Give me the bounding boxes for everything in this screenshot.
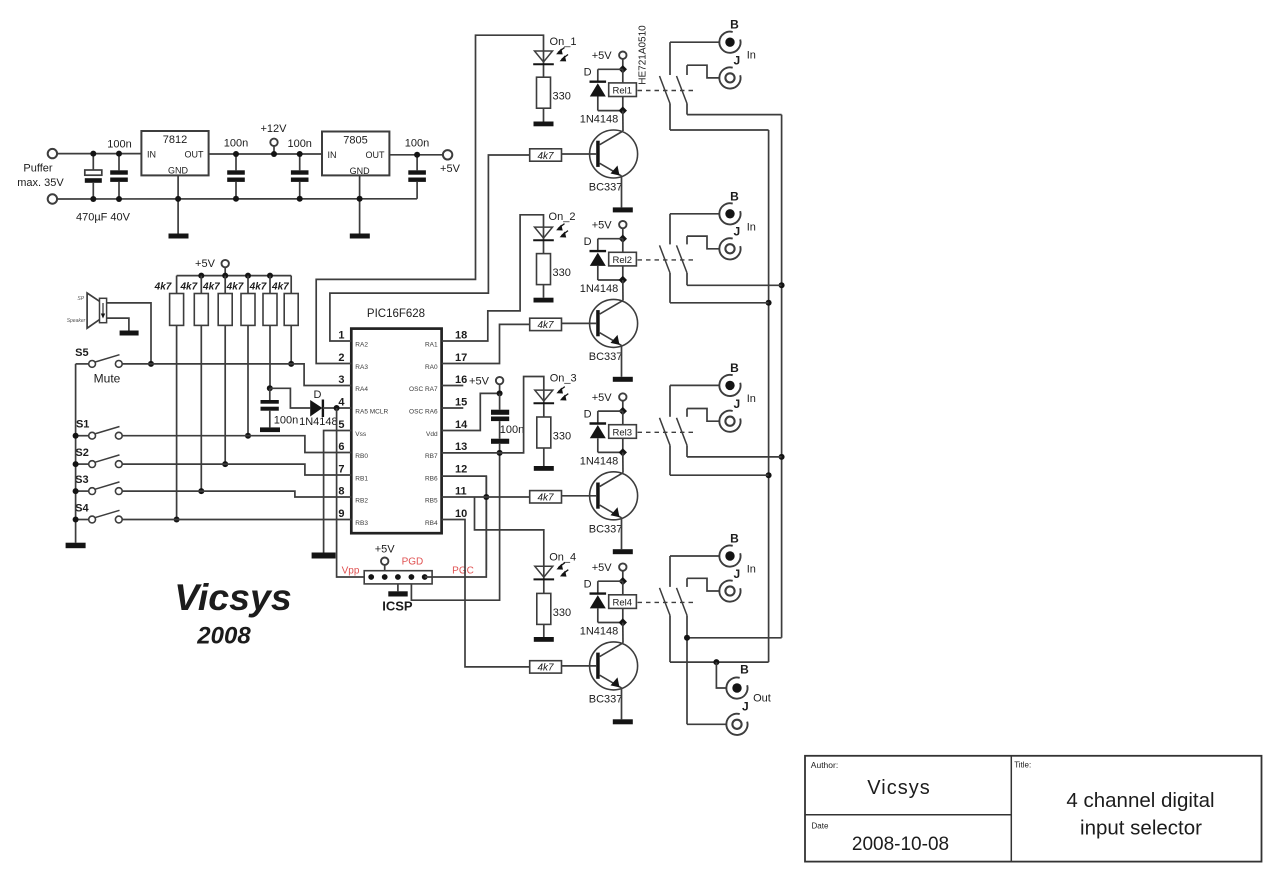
ground LED ch3 bbox=[534, 466, 554, 471]
label 4k7 R1 bbox=[154, 282, 172, 293]
svg-text:J: J bbox=[733, 225, 740, 239]
resistor 330 ch1 bbox=[537, 77, 551, 121]
svg-text:Speaker: Speaker bbox=[67, 318, 86, 324]
svg-text:RA2: RA2 bbox=[355, 342, 368, 349]
svg-text:4: 4 bbox=[338, 397, 345, 409]
wire ch4 signal to bus1 bbox=[670, 659, 769, 665]
junction relay bottom ch4 bbox=[619, 618, 627, 626]
svg-text:100n: 100n bbox=[274, 415, 298, 427]
svg-text:D: D bbox=[584, 408, 592, 420]
capacitor 470uF 40V bbox=[85, 151, 102, 202]
title block horizontal divider bbox=[805, 814, 1011, 816]
contact switch b ch4 bbox=[677, 578, 688, 724]
node +5V relay ch4 bbox=[619, 563, 626, 581]
svg-text:17: 17 bbox=[455, 352, 467, 364]
label 1N4148 ch1 bbox=[580, 114, 619, 126]
terminal Puffer + (input) bbox=[48, 149, 57, 158]
wire R1 to S4 net bbox=[174, 325, 180, 522]
svg-text:Vdd: Vdd bbox=[426, 431, 438, 438]
wire pin16 OSC stub bbox=[442, 385, 464, 387]
resistor R5 4k7 (pull-up) bbox=[263, 276, 277, 326]
resistor R3 4k7 (pull-up) bbox=[218, 276, 232, 326]
label +5V relay ch4 bbox=[592, 562, 613, 574]
wire pin8 RB2 to S3 bbox=[122, 491, 351, 497]
switch S3 bbox=[76, 482, 123, 495]
label 4k7 R2 bbox=[179, 282, 197, 293]
RCA connector B Out bbox=[726, 677, 747, 698]
svg-text:330: 330 bbox=[553, 431, 571, 443]
svg-text:J: J bbox=[733, 54, 740, 68]
bus ground vertical bbox=[779, 115, 785, 638]
node +5V Vdd bbox=[496, 377, 503, 397]
junction relay top ch4 bbox=[619, 577, 627, 585]
label J Out bbox=[742, 700, 749, 714]
svg-text:100n: 100n bbox=[500, 424, 524, 436]
label 100n (before 7805) bbox=[287, 138, 311, 150]
label 330 ch3 bbox=[553, 431, 571, 443]
wire B RCA to switch ch4 bbox=[670, 555, 719, 557]
wire relay coil ch2 bbox=[622, 239, 624, 280]
svg-text:RB5: RB5 bbox=[425, 498, 438, 505]
svg-text:4k7: 4k7 bbox=[202, 282, 220, 293]
svg-text:PIC16F628: PIC16F628 bbox=[367, 308, 425, 320]
node +5V relay ch3 bbox=[619, 393, 626, 411]
label Mute bbox=[94, 372, 121, 386]
relay Rel4 bbox=[609, 595, 637, 609]
label In ch4 bbox=[747, 564, 756, 576]
ground LED ch4 bbox=[534, 637, 554, 642]
svg-text:2008: 2008 bbox=[196, 623, 251, 650]
label D flyback ch3 bbox=[584, 408, 592, 420]
svg-text:15: 15 bbox=[455, 397, 467, 409]
wire speaker top to mute net bbox=[107, 303, 154, 367]
svg-text:D: D bbox=[314, 389, 322, 401]
dashed relay actuation ch1 bbox=[638, 90, 694, 92]
label +5V relay ch2 bbox=[592, 219, 613, 231]
wire ch3 ground to bus2 bbox=[687, 456, 782, 458]
svg-text:RB4: RB4 bbox=[425, 520, 438, 527]
wire 7805 OUT to +5V bbox=[389, 154, 443, 156]
wire pin7 RB1 to S2 bbox=[122, 464, 351, 475]
wire pin5 Vss to ground bbox=[324, 431, 352, 553]
RCA connector B ch1 bbox=[719, 32, 740, 53]
svg-text:RA3: RA3 bbox=[355, 364, 368, 371]
regulator 7812 bbox=[141, 131, 208, 176]
switch S4 bbox=[76, 510, 123, 523]
label 330 ch1 bbox=[553, 91, 571, 103]
svg-text:1: 1 bbox=[338, 330, 344, 342]
label Out bbox=[753, 693, 771, 705]
diode D 1N4148 flyback ch2 bbox=[590, 239, 623, 280]
resistor 330 ch4 bbox=[537, 593, 551, 637]
title block author Vicsys bbox=[867, 777, 930, 799]
svg-text:BC337: BC337 bbox=[589, 693, 623, 705]
svg-text:2: 2 bbox=[338, 352, 344, 364]
ICSP header bbox=[364, 571, 432, 584]
wire B RCA to switch ch1 bbox=[670, 41, 719, 43]
wire bottom rail bbox=[57, 198, 417, 200]
label S5 bbox=[75, 347, 88, 359]
svg-text:B: B bbox=[730, 189, 739, 203]
title block title line2 bbox=[1080, 817, 1202, 840]
RCA connector B ch2 bbox=[719, 203, 740, 224]
svg-text:13: 13 bbox=[455, 441, 467, 453]
junction relay bottom ch2 bbox=[619, 276, 627, 284]
label J ch3 bbox=[733, 397, 740, 411]
ground emitter ch2 bbox=[613, 377, 633, 382]
contact switch b ch1 bbox=[677, 65, 688, 114]
contact switch a ch1 bbox=[660, 42, 671, 130]
wire ch2 ground to bus2 bbox=[687, 284, 782, 286]
label 100n (after 7812) bbox=[224, 138, 248, 150]
label B ch3 bbox=[730, 361, 739, 375]
svg-text:OSC RA6: OSC RA6 bbox=[409, 409, 438, 416]
capacitor C 100n input bbox=[110, 151, 128, 202]
contact switch a ch2 bbox=[660, 214, 671, 303]
wire pin11 RB5 to R 4k7 ch3 bbox=[442, 496, 530, 498]
ground 7805 GND bbox=[350, 175, 370, 238]
label +5V output bbox=[440, 163, 461, 175]
svg-text:B: B bbox=[730, 361, 739, 375]
label S3 bbox=[75, 474, 88, 486]
resistor R4 4k7 (pull-up) bbox=[241, 276, 255, 326]
svg-text:GND: GND bbox=[350, 166, 371, 176]
wire pin3 RA4 to mute switch S5 bbox=[122, 364, 351, 386]
svg-text:Author:: Author: bbox=[811, 760, 838, 770]
svg-text:4k7: 4k7 bbox=[537, 663, 554, 674]
svg-text:RB0: RB0 bbox=[355, 453, 368, 460]
label D flyback ch1 bbox=[584, 67, 592, 79]
label On_3 bbox=[550, 373, 577, 385]
svg-text:In: In bbox=[747, 564, 756, 576]
wire relay to collector ch4 bbox=[622, 623, 624, 643]
dashed relay actuation ch4 bbox=[638, 601, 694, 603]
node +5V ICSP bbox=[381, 558, 388, 572]
svg-text:RA5 MCLR: RA5 MCLR bbox=[355, 409, 388, 416]
label +5V relay ch3 bbox=[592, 392, 613, 404]
svg-text:PGD: PGD bbox=[402, 557, 424, 568]
node +5V relay ch1 bbox=[619, 52, 626, 70]
svg-text:4k7: 4k7 bbox=[179, 282, 197, 293]
bus signal vertical bbox=[766, 130, 772, 662]
switch S1 bbox=[76, 427, 123, 440]
label PGD bbox=[402, 557, 424, 568]
label SP bbox=[77, 296, 84, 302]
svg-text:Puffer: Puffer bbox=[23, 163, 52, 175]
svg-text:Rel4: Rel4 bbox=[613, 598, 633, 609]
speaker SP bbox=[87, 293, 107, 328]
label 4k7 R6 bbox=[271, 282, 289, 293]
svg-text:In: In bbox=[747, 393, 756, 405]
ICSP pins bbox=[368, 574, 427, 580]
junction relay top ch1 bbox=[619, 65, 627, 73]
svg-text:RB2: RB2 bbox=[355, 498, 368, 505]
label D flyback ch4 bbox=[584, 578, 592, 590]
svg-text:10: 10 bbox=[455, 508, 467, 520]
svg-text:11: 11 bbox=[455, 486, 467, 498]
label BC337 ch3 bbox=[589, 523, 623, 535]
RCA connector J Out bbox=[726, 714, 747, 735]
svg-text:2008-10-08: 2008-10-08 bbox=[852, 834, 949, 855]
svg-text:B: B bbox=[730, 18, 739, 32]
label 4k7 R4 bbox=[226, 282, 244, 293]
label +5V (resistor bank) bbox=[195, 258, 216, 270]
label 1N4148 ch2 bbox=[580, 283, 619, 295]
wire R6 to mute net bbox=[288, 325, 294, 367]
svg-text:16: 16 bbox=[455, 374, 467, 386]
wire J RCA to switch ch2 bbox=[687, 236, 719, 249]
svg-text:max. 35V: max. 35V bbox=[17, 177, 64, 189]
logo 2008 bbox=[196, 623, 251, 650]
relay Rel1 bbox=[609, 83, 637, 97]
svg-text:4k7: 4k7 bbox=[537, 493, 554, 504]
RCA connector J ch4 bbox=[719, 580, 740, 601]
svg-text:D: D bbox=[584, 67, 592, 79]
label +5V relay ch1 bbox=[592, 50, 613, 62]
label +5V (Vdd) bbox=[469, 376, 490, 388]
label HE721A0510 bbox=[638, 25, 649, 85]
svg-text:+5V: +5V bbox=[592, 219, 613, 231]
label On_1 bbox=[550, 36, 577, 48]
wire relay coil ch3 bbox=[622, 411, 624, 452]
label 100n (+5V cap) bbox=[405, 138, 429, 150]
svg-text:RB3: RB3 bbox=[355, 520, 368, 527]
wire relay coil ch4 bbox=[622, 581, 624, 622]
svg-text:OSC RA7: OSC RA7 bbox=[409, 386, 438, 393]
wire R2 to S3 net bbox=[198, 325, 204, 494]
wire R4 to S1 net bbox=[245, 325, 251, 438]
diode D 1N4148 flyback ch3 bbox=[590, 411, 623, 452]
label D (MCLR diode) bbox=[314, 389, 322, 401]
wire B RCA to switch ch3 bbox=[670, 384, 719, 386]
svg-text:330: 330 bbox=[553, 607, 571, 619]
svg-text:S1: S1 bbox=[76, 419, 89, 431]
switch S5 Mute bbox=[76, 355, 123, 368]
svg-text:J: J bbox=[733, 567, 740, 581]
svg-text:On_3: On_3 bbox=[550, 373, 577, 385]
logo Vicsys bbox=[174, 576, 291, 618]
diode D 1N4148 (MCLR) bbox=[310, 400, 351, 418]
title block vertical divider bbox=[1010, 756, 1012, 862]
resistor 4k7 base ch4 bbox=[530, 661, 562, 674]
svg-text:GND: GND bbox=[168, 166, 189, 176]
wire Vpp from MCLR to ICSP bbox=[337, 408, 365, 577]
contact switch b ch3 bbox=[677, 409, 688, 457]
ground emitter ch4 bbox=[613, 719, 633, 724]
switch S2 bbox=[76, 455, 123, 468]
svg-text:4 channel digital: 4 channel digital bbox=[1066, 789, 1214, 812]
svg-text:On_4: On_4 bbox=[549, 551, 576, 563]
svg-text:IN: IN bbox=[328, 150, 337, 160]
svg-text:1N4148: 1N4148 bbox=[580, 114, 619, 126]
svg-text:OUT: OUT bbox=[366, 150, 386, 160]
wire relay coil ch1 bbox=[622, 69, 624, 110]
label D flyback ch2 bbox=[584, 236, 592, 248]
svg-text:6: 6 bbox=[338, 441, 344, 453]
wire R3 to S2 net bbox=[222, 325, 228, 467]
ground speaker bbox=[120, 331, 139, 336]
wire base ch4 bbox=[562, 665, 597, 667]
label J ch1 bbox=[733, 54, 740, 68]
label S4 bbox=[75, 502, 89, 514]
svg-text:14: 14 bbox=[455, 419, 468, 431]
wire pin15 OSC stub bbox=[442, 407, 464, 409]
label In ch3 bbox=[747, 393, 756, 405]
svg-text:1N4148: 1N4148 bbox=[299, 416, 338, 428]
svg-text:330: 330 bbox=[553, 91, 571, 103]
svg-text:100n: 100n bbox=[405, 138, 429, 150]
junction relay bottom ch1 bbox=[619, 106, 627, 114]
LED On_4 bbox=[534, 563, 569, 594]
svg-text:Rel3: Rel3 bbox=[613, 428, 633, 439]
svg-text:Date: Date bbox=[812, 822, 829, 831]
svg-text:+5V: +5V bbox=[592, 562, 613, 574]
node +5V resistor bank bbox=[222, 260, 229, 276]
relay Rel3 bbox=[609, 425, 637, 439]
label B ch1 bbox=[730, 18, 739, 32]
label Speaker bbox=[67, 318, 86, 324]
svg-text:RA0: RA0 bbox=[425, 364, 438, 371]
contact switch a ch4 bbox=[660, 556, 671, 662]
label B ch4 bbox=[730, 532, 739, 546]
wire base ch1 bbox=[562, 153, 597, 155]
wire pin9 RB3 to S4 bbox=[122, 519, 351, 521]
wire ch4 ground to bus2 bbox=[684, 635, 782, 641]
svg-text:S5: S5 bbox=[75, 347, 88, 359]
svg-text:RB6: RB6 bbox=[425, 476, 438, 483]
svg-text:100n: 100n bbox=[107, 139, 131, 151]
svg-text:12: 12 bbox=[455, 464, 467, 476]
dashed relay actuation ch2 bbox=[638, 259, 694, 261]
svg-text:7: 7 bbox=[338, 464, 344, 476]
RCA connector B ch4 bbox=[719, 545, 740, 566]
label On_4 bbox=[549, 551, 576, 563]
label Puffer max. 35V bbox=[17, 163, 64, 190]
wire to J Out bbox=[687, 723, 726, 725]
resistor 4k7 base ch2 bbox=[530, 318, 562, 331]
svg-text:PGC: PGC bbox=[452, 566, 474, 577]
svg-text:470µF 40V: 470µF 40V bbox=[76, 212, 131, 224]
wire emitter to ground ch4 bbox=[621, 688, 623, 719]
ground Vss bbox=[312, 553, 336, 559]
svg-text:+5V: +5V bbox=[440, 163, 461, 175]
wire J RCA to switch ch4 bbox=[687, 578, 719, 591]
capacitor 100n at MCLR bbox=[261, 388, 279, 427]
svg-text:Vss: Vss bbox=[355, 431, 367, 438]
svg-text:IN: IN bbox=[147, 150, 156, 160]
wire pin18 RA1 to LED On_2 bbox=[442, 215, 544, 341]
capacitor 100n after 7812 bbox=[227, 151, 245, 202]
wire pin12 RB6 down bbox=[442, 476, 490, 570]
ground 7812 GND bbox=[169, 175, 189, 238]
terminal Puffer - (input) bbox=[48, 194, 57, 203]
wire relay to collector ch2 bbox=[622, 280, 624, 300]
svg-text:1N4148: 1N4148 bbox=[580, 283, 619, 295]
svg-text:BC337: BC337 bbox=[589, 351, 623, 363]
svg-text:4k7: 4k7 bbox=[226, 282, 244, 293]
svg-text:J: J bbox=[742, 700, 749, 714]
wire 7812 OUT to 7805 IN bbox=[209, 153, 322, 155]
svg-text:J: J bbox=[733, 397, 740, 411]
label S1 bbox=[76, 419, 89, 431]
label S2 bbox=[75, 447, 88, 459]
label 470uF 40V bbox=[76, 212, 131, 224]
label Vpp bbox=[342, 566, 360, 577]
wire top input rail bbox=[57, 153, 141, 155]
svg-text:On_1: On_1 bbox=[550, 36, 577, 48]
svg-text:BC337: BC337 bbox=[589, 182, 623, 194]
label 1N4148 ch3 bbox=[580, 455, 619, 467]
wire PGC to RB6 bbox=[425, 476, 487, 577]
svg-text:Vpp: Vpp bbox=[342, 566, 360, 577]
label +12V bbox=[261, 123, 288, 135]
resistor R1 4k7 (pull-up) bbox=[170, 276, 184, 326]
svg-text:7805: 7805 bbox=[343, 135, 367, 147]
svg-text:7812: 7812 bbox=[163, 134, 187, 146]
resistor 4k7 base ch3 bbox=[530, 491, 562, 504]
wire relay to collector ch3 bbox=[622, 452, 624, 472]
label 330 ch4 bbox=[553, 607, 571, 619]
diode D 1N4148 flyback ch4 bbox=[590, 581, 623, 622]
label +5V (ICSP) bbox=[375, 544, 396, 556]
wire relay to collector ch1 bbox=[622, 111, 624, 131]
node +12V bbox=[270, 139, 277, 157]
svg-text:8: 8 bbox=[338, 486, 344, 498]
label PIC16F628 bbox=[367, 308, 425, 320]
svg-text:In: In bbox=[747, 221, 756, 233]
LED On_1 bbox=[533, 48, 568, 78]
label BC337 ch2 bbox=[589, 351, 623, 363]
wire RB5 branch to LED On_4 bbox=[475, 497, 544, 566]
wire pin1 RA2 to R 4k7 ch1 bbox=[330, 155, 530, 341]
label In ch2 bbox=[747, 221, 756, 233]
label BC337 ch1 bbox=[589, 182, 623, 194]
label 330 ch2 bbox=[553, 267, 571, 279]
label 100n (input cap) bbox=[107, 139, 131, 151]
svg-text:D: D bbox=[584, 578, 592, 590]
label B ch2 bbox=[730, 189, 739, 203]
svg-text:ICSP: ICSP bbox=[382, 599, 413, 614]
pin numbers and pin names bbox=[338, 330, 468, 528]
title block date bbox=[852, 834, 949, 855]
label On_2 bbox=[549, 211, 576, 223]
RCA connector J ch1 bbox=[719, 67, 740, 88]
wire to B Out bbox=[716, 662, 726, 688]
svg-text:RB7: RB7 bbox=[425, 453, 438, 460]
svg-text:RB1: RB1 bbox=[355, 476, 368, 483]
svg-text:+12V: +12V bbox=[261, 123, 288, 135]
dashed relay actuation ch3 bbox=[638, 431, 694, 433]
svg-text:+5V: +5V bbox=[592, 392, 613, 404]
svg-text:4k7: 4k7 bbox=[537, 320, 554, 331]
svg-text:D: D bbox=[584, 236, 592, 248]
svg-text:S4: S4 bbox=[75, 502, 89, 514]
svg-text:3: 3 bbox=[338, 374, 344, 386]
svg-text:9: 9 bbox=[338, 508, 344, 520]
svg-text:Mute: Mute bbox=[94, 372, 121, 386]
RCA connector B ch3 bbox=[719, 375, 740, 396]
terminal +5V output bbox=[443, 150, 452, 159]
wire speaker bottom to ground bbox=[107, 318, 129, 330]
junction relay bottom ch3 bbox=[619, 448, 627, 456]
wire base ch2 bbox=[562, 322, 597, 324]
wire emitter to ground ch2 bbox=[621, 345, 623, 376]
label 4k7 R3 bbox=[202, 282, 220, 293]
wire pin6 RB0 to S1 bbox=[122, 436, 351, 453]
ground 100n MCLR bbox=[260, 427, 280, 432]
ground emitter ch3 bbox=[613, 549, 633, 554]
wire emitter to ground ch3 bbox=[621, 518, 623, 549]
